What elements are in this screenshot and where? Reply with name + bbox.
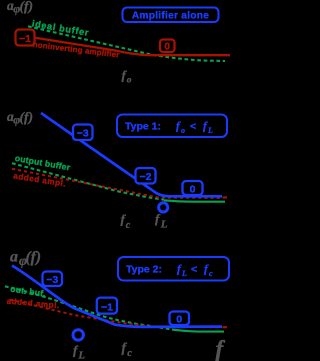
axis label a_phi(f) panel 2 bbox=[7, 109, 33, 126]
blue curve p2: composite bbox=[41, 113, 222, 196]
red dashed curve p3 bbox=[10, 300, 222, 328]
frequency label f_c (p2) bbox=[121, 212, 131, 232]
green dashed curve p2: output buffer bbox=[12, 163, 164, 200]
blue curve p3: composite bbox=[12, 266, 222, 327]
slope box -1 (p3) bbox=[97, 298, 117, 314]
svg-text:L: L bbox=[181, 269, 187, 278]
svg-text:Type 2:: Type 2: bbox=[126, 264, 162, 276]
svg-text:noninverting amplifier: noninverting amplifier bbox=[32, 40, 120, 60]
svg-text:0: 0 bbox=[164, 42, 170, 53]
green solid flat p2 bbox=[164, 200, 225, 201]
slope box 0 (p2) bbox=[183, 181, 203, 196]
svg-text:<: < bbox=[190, 121, 196, 133]
svg-text:−1: −1 bbox=[101, 302, 113, 314]
red solid curve: noninverting amplifier bbox=[25, 36, 230, 55]
slope box -2 (p2) bbox=[136, 168, 156, 184]
slope box -3 (p2) bbox=[73, 125, 93, 141]
svg-text:0: 0 bbox=[190, 184, 196, 196]
svg-text:ideal buffer: ideal buffer bbox=[31, 19, 90, 38]
slope box 0 (p3) bbox=[170, 312, 190, 326]
svg-text:0: 0 bbox=[176, 314, 182, 326]
svg-text:(f): (f) bbox=[20, 0, 34, 14]
svg-text:−1: −1 bbox=[19, 33, 31, 45]
svg-text:<: < bbox=[191, 264, 197, 276]
svg-text:o: o bbox=[127, 76, 132, 86]
svg-text:f: f bbox=[216, 336, 226, 361]
green dashed curve: ideal buffer bbox=[28, 26, 225, 61]
axis label a_phi(f) panel 1 bbox=[7, 0, 33, 15]
svg-text:Amplifier alone: Amplifier alone bbox=[132, 11, 209, 22]
red end dash p2 bbox=[223, 196, 228, 198]
green dashed curve p3 bbox=[5, 286, 172, 329]
svg-text:a: a bbox=[10, 249, 18, 266]
svg-text:added ampl.: added ampl. bbox=[13, 171, 67, 188]
svg-text:L: L bbox=[78, 351, 85, 361]
svg-text:L: L bbox=[207, 126, 213, 135]
svg-text:−3: −3 bbox=[77, 128, 89, 140]
frequency label f_o bbox=[122, 68, 132, 86]
circle marker at f_L (p2) bbox=[159, 203, 168, 212]
slope box -1 bbox=[16, 30, 35, 46]
svg-text:output buffer: output buffer bbox=[14, 153, 71, 173]
svg-text:c: c bbox=[127, 348, 132, 359]
red end dash p3 bbox=[223, 326, 228, 328]
svg-text:c: c bbox=[209, 269, 213, 278]
title box: Type 1 bbox=[117, 115, 227, 138]
title box: Amplifier alone bbox=[123, 8, 219, 23]
svg-text:Type 1:: Type 1: bbox=[125, 121, 161, 133]
slope box -3 (p3) bbox=[43, 272, 63, 287]
svg-text:added ampl.: added ampl. bbox=[6, 297, 60, 311]
svg-text:−2: −2 bbox=[140, 171, 152, 183]
axis label a_phi(f) panel 3 bbox=[10, 249, 41, 268]
frequency label f_c (p3) bbox=[122, 340, 133, 359]
green solid flat p3 bbox=[172, 330, 224, 332]
red dashed curve p2: added ampl bbox=[12, 169, 222, 198]
svg-text:c: c bbox=[126, 220, 131, 231]
svg-text:−3: −3 bbox=[46, 274, 58, 286]
svg-text:(f): (f) bbox=[26, 249, 42, 266]
svg-text:o: o bbox=[181, 126, 185, 135]
svg-text:(f): (f) bbox=[20, 110, 34, 125]
circle marker at f_L (p3) bbox=[73, 330, 83, 340]
frequency label f_L (p3) bbox=[73, 343, 85, 361]
title box: Type 2 bbox=[118, 257, 229, 281]
frequency label f_L (p2) bbox=[155, 211, 168, 231]
slope box 0 (panel 1) bbox=[160, 40, 175, 53]
svg-text:L: L bbox=[160, 218, 168, 230]
